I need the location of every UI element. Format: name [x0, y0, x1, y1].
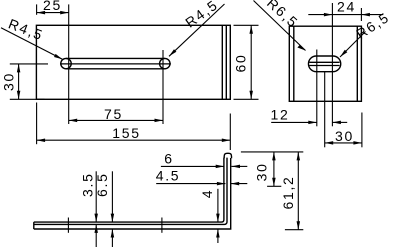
- svg-text:6: 6: [164, 151, 174, 167]
- svg-text:30: 30: [335, 128, 354, 144]
- svg-text:60: 60: [233, 54, 249, 73]
- svg-text:75: 75: [104, 106, 123, 122]
- svg-text:4.5: 4.5: [156, 168, 181, 184]
- svg-text:12: 12: [271, 107, 290, 123]
- svg-text:6.5: 6.5: [94, 172, 110, 197]
- svg-text:30: 30: [254, 162, 270, 181]
- svg-text:30: 30: [1, 72, 17, 91]
- svg-text:61,2: 61,2: [280, 175, 296, 209]
- svg-text:24: 24: [337, 0, 356, 15]
- svg-text:4: 4: [199, 189, 215, 199]
- svg-text:155: 155: [112, 125, 140, 141]
- svg-text:25: 25: [43, 0, 62, 13]
